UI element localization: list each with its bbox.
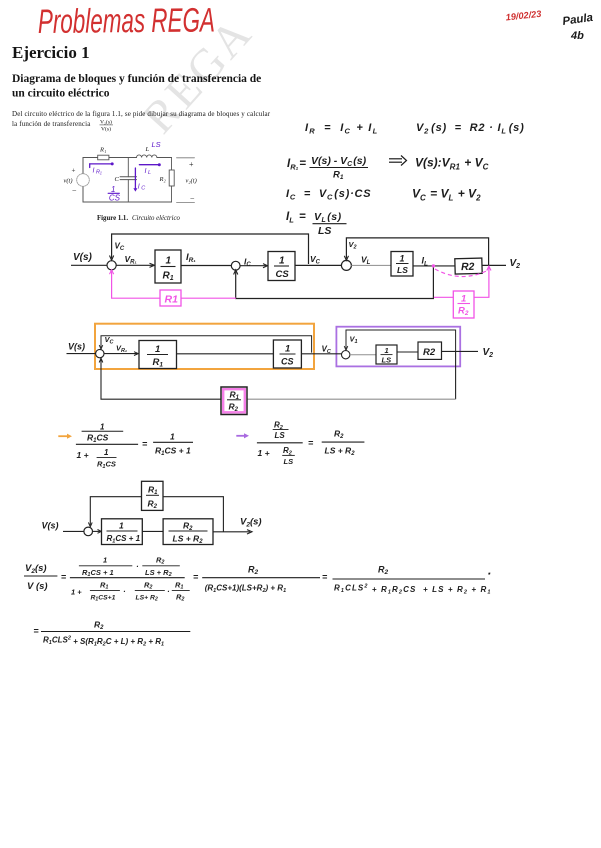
svg-text:Figure 1.1.: Figure 1.1. bbox=[97, 215, 128, 222]
summing junction S2 bbox=[342, 351, 350, 359]
pink block 1/R2 bbox=[453, 291, 474, 318]
fraction result 1: 1/(R1CS+1) bbox=[153, 432, 193, 458]
svg-text:1: 1 bbox=[119, 521, 124, 531]
inductor L bbox=[137, 155, 157, 158]
svg-text:·: · bbox=[167, 587, 170, 596]
svg-text:=: = bbox=[142, 439, 148, 449]
lhs V2(s)/V(s) bbox=[24, 563, 57, 592]
pink node dot at IL bbox=[432, 264, 435, 267]
wire outer feedback right segment bbox=[247, 398, 456, 400]
inline fraction V2(s)/V(s) bbox=[100, 119, 114, 133]
svg-text:−: − bbox=[72, 186, 77, 195]
svg-text:LS: LS bbox=[284, 457, 294, 466]
wire R2 to output V2 bbox=[482, 264, 506, 266]
svg-text:R1CS+1: R1CS+1 bbox=[91, 595, 116, 603]
block R2 bbox=[455, 258, 482, 274]
pink block R1 bbox=[160, 290, 181, 306]
wire sum2 to block 1/CS bbox=[240, 264, 267, 268]
svg-text:v₂(t): v₂(t) bbox=[186, 178, 197, 185]
block 1/CS bbox=[268, 252, 295, 281]
svg-text:C: C bbox=[115, 176, 120, 183]
wire block 1/R1 to sum2 bbox=[181, 265, 231, 267]
svg-text:R₁: R₁ bbox=[99, 147, 106, 154]
svg-text:R1: R1 bbox=[165, 294, 179, 306]
wire middle rail lower bbox=[127, 180, 129, 202]
svg-text:1: 1 bbox=[103, 556, 107, 565]
svg-text:V(s) - VC(s): V(s) - VC(s) bbox=[311, 155, 367, 168]
svg-text:R1CS + 1: R1CS + 1 bbox=[155, 446, 191, 458]
svg-text:·: · bbox=[123, 587, 126, 596]
block R1/R2 feedback bbox=[142, 481, 164, 510]
svg-text:Ejercicio 1: Ejercicio 1 bbox=[12, 43, 90, 62]
block 1/R1 bbox=[155, 250, 181, 283]
fraction result 2: R2/(LS+R2) bbox=[322, 429, 365, 458]
wire middle rail upper bbox=[127, 158, 129, 177]
orange highlight box bbox=[95, 324, 314, 369]
wire input to sum bbox=[63, 530, 84, 532]
svg-text:R1CS: R1CS bbox=[87, 433, 109, 445]
svg-text:LS: LS bbox=[397, 265, 408, 275]
eq IL = VL(s)/LS bbox=[286, 211, 347, 237]
block R2 bbox=[418, 342, 442, 359]
svg-text:IL =: IL = bbox=[286, 211, 306, 225]
wire inner feedback loop V1 bbox=[344, 330, 455, 351]
svg-text:Del circuito eléctrico de la f: Del circuito eléctrico de la figura 1.1,… bbox=[12, 110, 271, 118]
svg-text:1: 1 bbox=[104, 448, 109, 457]
svg-text:I: I bbox=[138, 184, 140, 191]
fraction 2 bbox=[202, 565, 320, 595]
wire right rail upper bbox=[171, 158, 173, 171]
pink dashed arc tap move bbox=[435, 269, 487, 277]
svg-text:1: 1 bbox=[170, 432, 175, 442]
summing junction S2 bbox=[231, 261, 240, 270]
wire block A to block B bbox=[142, 530, 163, 532]
block 1/LS bbox=[391, 252, 413, 277]
fraction block 2: (R2/LS)/(1+R2/LS) bbox=[257, 421, 303, 467]
svg-text:·: · bbox=[487, 566, 491, 581]
red date 19/02/23 bbox=[505, 9, 542, 23]
block 1/R1 bbox=[139, 341, 177, 369]
svg-text:LS + R2: LS + R2 bbox=[325, 446, 356, 458]
svg-text:I: I bbox=[93, 168, 95, 175]
big fraction numerator minifrac 1/(R1CS+1) bbox=[79, 556, 132, 579]
pink wire to block 1/R2 bbox=[434, 266, 491, 297]
purple highlight box bbox=[336, 327, 460, 367]
wire left rail upper bbox=[82, 158, 84, 174]
svg-text:LS + R2: LS + R2 bbox=[173, 534, 204, 546]
capacitor C plates bbox=[120, 176, 136, 178]
purple annotation 1/CS bbox=[108, 185, 121, 203]
svg-text:LS: LS bbox=[152, 140, 161, 149]
summing junction S3 bbox=[341, 260, 351, 270]
svg-text:LS: LS bbox=[318, 225, 331, 237]
svg-text:LS: LS bbox=[275, 431, 286, 440]
svg-text:1: 1 bbox=[385, 346, 389, 355]
summing junction bbox=[84, 527, 93, 536]
svg-text:V(s): V(s) bbox=[68, 342, 85, 352]
svg-text:L: L bbox=[145, 146, 150, 153]
svg-text:R1CS + 1: R1CS + 1 bbox=[107, 534, 141, 545]
svg-text:1: 1 bbox=[279, 256, 285, 267]
eq IR = IC + IL bbox=[305, 122, 378, 136]
svg-text:LS: LS bbox=[382, 356, 392, 365]
wire sum to block A bbox=[93, 530, 102, 534]
svg-text:=: = bbox=[322, 572, 328, 582]
eq IR1 = (V(s)-Vc(s))/R1 bbox=[287, 155, 368, 181]
svg-text:R₁: R₁ bbox=[96, 170, 102, 176]
orange arrow bbox=[58, 434, 72, 439]
summing junction S1 bbox=[107, 261, 116, 270]
wire inner feedback loop VC bbox=[99, 336, 311, 353]
block R2/(LS+R2) bbox=[163, 519, 213, 545]
wire output stub bottom bbox=[177, 202, 195, 204]
svg-text:Circuito eléctrico: Circuito eléctrico bbox=[132, 215, 180, 222]
eq V(s) = VR1 + VC bbox=[415, 156, 489, 172]
wire top feedback loop VC bbox=[110, 234, 309, 264]
svg-text:V(s): V(s) bbox=[73, 252, 93, 263]
svg-text:+: + bbox=[189, 160, 194, 169]
svg-text:V (s): V (s) bbox=[27, 581, 48, 592]
svg-text:·: · bbox=[136, 562, 139, 571]
block 1/CS bbox=[273, 340, 301, 368]
svg-text:R2: R2 bbox=[423, 347, 436, 358]
wire sum1 to block 1/R1 bbox=[104, 352, 138, 356]
wire outer feedback left segment into sum1 bbox=[99, 358, 221, 399]
svg-text:CS: CS bbox=[281, 357, 294, 367]
svg-text:L: L bbox=[148, 170, 151, 176]
svg-text:1 +: 1 + bbox=[71, 588, 82, 597]
implies arrow bbox=[389, 156, 407, 166]
svg-text:v(t): v(t) bbox=[64, 178, 73, 185]
fraction 3 bbox=[333, 565, 492, 596]
resistor R1 box bbox=[98, 155, 109, 160]
eq V2(s) = R2 IL(s) bbox=[416, 122, 525, 136]
svg-text:V₂(s): V₂(s) bbox=[100, 119, 112, 126]
wire sum3 to block 1/LS bbox=[351, 264, 391, 266]
wire 1/CS to sum3 with VC node bbox=[295, 264, 341, 266]
svg-text:1: 1 bbox=[100, 423, 105, 432]
svg-text:1: 1 bbox=[166, 256, 172, 267]
figure caption bbox=[97, 215, 180, 222]
svg-text:=: = bbox=[193, 572, 199, 582]
wire top feedback loop V2 bbox=[344, 238, 488, 265]
wire output stub top bbox=[177, 157, 195, 159]
last line bbox=[33, 620, 190, 648]
numerator minifrac R2/(LS+R2) bbox=[142, 556, 180, 579]
svg-text:I: I bbox=[145, 168, 147, 175]
eq IC = VC(s) CS bbox=[286, 188, 371, 202]
svg-text:R1CS + 1: R1CS + 1 bbox=[82, 568, 114, 578]
wire top left segment bbox=[83, 157, 98, 159]
svg-text:Diagrama de bloques y función: Diagrama de bloques y función de transfe… bbox=[12, 73, 261, 85]
signature Paula bbox=[562, 12, 595, 42]
wire 1/LS to block R2 bbox=[413, 265, 455, 267]
svg-text:1: 1 bbox=[155, 344, 160, 355]
svg-text:CS: CS bbox=[109, 194, 121, 203]
svg-text:VL(s): VL(s) bbox=[314, 211, 342, 224]
svg-text:=: = bbox=[308, 438, 314, 448]
wire right rail lower bbox=[171, 186, 173, 202]
svg-text:la función de transferencia: la función de transferencia bbox=[12, 120, 91, 128]
svg-text:1 +: 1 + bbox=[258, 448, 270, 458]
summing junction S1 bbox=[96, 349, 104, 357]
purple annotation current IC arrow bbox=[133, 168, 137, 192]
wire left rail lower bbox=[82, 187, 84, 203]
eq VC = VL + V2 bbox=[412, 187, 481, 203]
pink feedback wire into sum1 bbox=[110, 270, 237, 298]
wire 1/CS to sum2 bbox=[301, 353, 341, 355]
wire 1/LS to R2 bbox=[397, 351, 418, 353]
svg-text:V(s): V(s) bbox=[101, 126, 111, 133]
svg-text:+: + bbox=[72, 167, 76, 175]
svg-text:−: − bbox=[190, 194, 195, 203]
wire input to sum1 bbox=[67, 353, 96, 355]
svg-text:1: 1 bbox=[285, 344, 290, 355]
svg-text:V2(s) = R2 · IL(s): V2(s) = R2 · IL(s) bbox=[416, 122, 525, 136]
wire feedback loop bbox=[88, 497, 223, 532]
svg-text:V(s): V(s) bbox=[42, 521, 59, 531]
svg-text:LS + R2: LS + R2 bbox=[145, 568, 172, 578]
svg-text:un circuito eléctrico: un circuito eléctrico bbox=[12, 88, 110, 100]
svg-text:CS: CS bbox=[276, 269, 290, 280]
wire R2 to output V2 bbox=[442, 350, 479, 352]
svg-text:1: 1 bbox=[461, 294, 466, 305]
wire outer feedback down from tap bbox=[455, 351, 457, 399]
svg-text:=: = bbox=[33, 626, 39, 636]
svg-text:V2(s): V2(s) bbox=[240, 517, 262, 529]
svg-text:R1CS: R1CS bbox=[97, 460, 116, 471]
block 1/(R1CS+1) bbox=[102, 519, 143, 545]
purple annotation current IR1 arrow bbox=[90, 162, 114, 167]
resistor R2 bbox=[169, 170, 174, 186]
voltage source v(t) bbox=[77, 174, 90, 187]
main bar bbox=[70, 577, 185, 579]
block 1/LS bbox=[376, 345, 397, 365]
wire input to sum1 bbox=[71, 264, 107, 266]
svg-text:V2(s): V2(s) bbox=[25, 563, 47, 575]
svg-text:=: = bbox=[61, 572, 67, 582]
svg-text:(R1CS+1)(LS+R2) + R1: (R1CS+1)(LS+R2) + R1 bbox=[205, 584, 286, 595]
block R1/R2 highlighted bbox=[221, 387, 247, 415]
svg-text:Problemas REGA: Problemas REGA bbox=[38, 1, 215, 41]
purple arrow bbox=[236, 433, 249, 438]
wire sum2 to block 1/LS bbox=[350, 354, 376, 356]
wire top middle segment bbox=[109, 157, 137, 159]
svg-text:LS+ R2: LS+ R2 bbox=[136, 595, 158, 603]
bottom wire bbox=[83, 201, 172, 203]
purple annotation current IL arrow bbox=[139, 163, 160, 166]
wire output with arrow bbox=[213, 530, 252, 534]
wire top right segment bbox=[157, 157, 172, 159]
svg-text:R₂: R₂ bbox=[159, 176, 167, 183]
wire block 1/R1 to block 1/CS bbox=[177, 353, 274, 355]
svg-text:1 +: 1 + bbox=[77, 450, 89, 460]
fraction block 1: (1/R1CS)/(1+1/R1CS) bbox=[76, 423, 138, 471]
svg-text:1: 1 bbox=[400, 254, 405, 264]
wire sum1 to block 1/R1 bbox=[116, 263, 154, 267]
wire bottom feedback IL to sum2 bbox=[234, 266, 434, 299]
svg-text:C: C bbox=[141, 186, 145, 192]
watermark REGA bbox=[133, 7, 263, 143]
svg-text:R2: R2 bbox=[461, 261, 475, 273]
red title Problemas REGA bbox=[38, 1, 215, 41]
svg-text:4b: 4b bbox=[570, 30, 584, 42]
